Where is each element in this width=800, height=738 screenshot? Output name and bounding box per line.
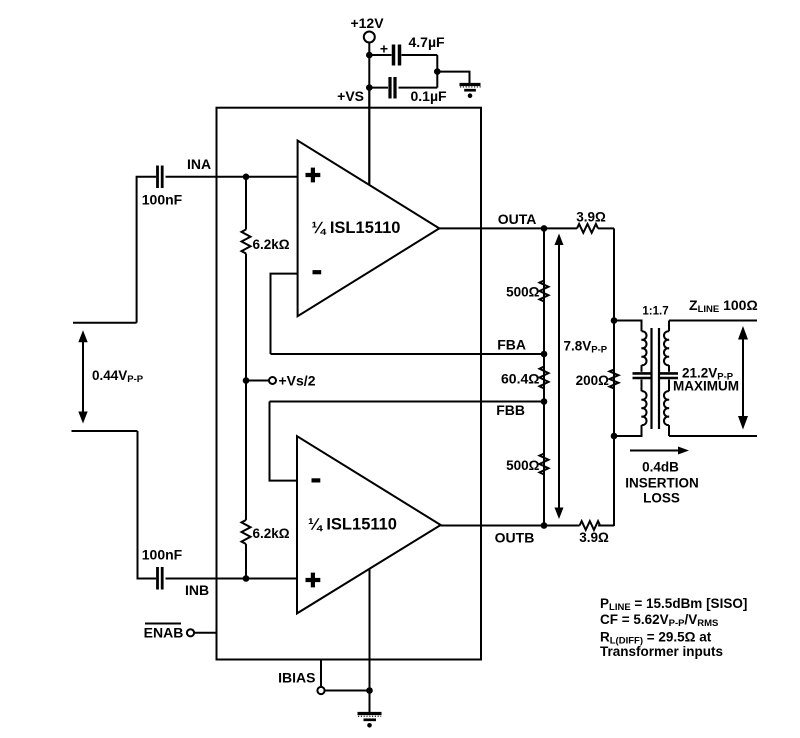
junction transformer bottom xyxy=(611,433,618,440)
stub source bottom xyxy=(72,430,138,432)
wire line-side rail xyxy=(613,228,615,526)
resistor R7 3.9 (OUTB) xyxy=(579,521,609,545)
wire INB to op-amp xyxy=(166,578,298,580)
svg-text:IBIAS: IBIAS xyxy=(278,670,315,686)
junction OUTA rail xyxy=(541,225,548,232)
capacitor C3 100nF (INA) xyxy=(142,166,183,208)
op-amp U1B xyxy=(297,436,441,613)
measure 7.8Vp-p double arrow xyxy=(555,234,608,520)
wire bias rail middle xyxy=(245,254,247,521)
svg-text:PLINE = 15.5dBm [SISO]: PLINE = 15.5dBm [SISO] xyxy=(600,596,747,613)
svg-text:¼ ISL15110: ¼ ISL15110 xyxy=(308,516,397,534)
wire FBB xyxy=(270,401,545,403)
svg-text:MAXIMUM: MAXIMUM xyxy=(673,379,739,394)
wire INA to op-amp xyxy=(166,176,298,178)
svg-text:INB: INB xyxy=(185,582,209,598)
svg-text:+12V: +12V xyxy=(350,15,384,31)
wire right vertical between caps xyxy=(436,55,438,88)
resistor R2 6.2k xyxy=(242,520,290,544)
junction at 4.7uF tap xyxy=(366,52,373,59)
wire feedback A (minus input to FBA) xyxy=(271,274,298,354)
wire IBIAS from op-amp B to ground xyxy=(369,569,371,691)
stub source top xyxy=(73,322,137,324)
terminal +12V xyxy=(350,15,384,43)
transformer T1 core xyxy=(652,328,660,429)
wire INB input with corner xyxy=(138,431,157,579)
transformer T1 secondary xyxy=(660,321,678,437)
wire line bottom xyxy=(669,435,757,437)
capacitor C4 100nF (INB) xyxy=(142,547,183,590)
wire INA input with corner xyxy=(137,177,156,323)
resistor R8 200 xyxy=(576,370,619,389)
wire OUTB to line rail xyxy=(598,525,614,527)
svg-text:FBB: FBB xyxy=(496,402,525,418)
resistor R1 6.2k xyxy=(242,230,290,254)
annotation text block xyxy=(600,596,747,659)
svg-text:Transformer inputs: Transformer inputs xyxy=(600,644,723,659)
wire bias rail lower xyxy=(245,544,247,579)
op-amp U1A xyxy=(298,141,440,317)
wire feedback B (minus input to FBB) xyxy=(270,402,298,481)
svg-text:500Ω: 500Ω xyxy=(506,458,540,473)
wire to ground xyxy=(437,72,469,83)
junction INB rail xyxy=(243,575,250,582)
svg-text:+: + xyxy=(380,41,388,57)
wire +VS to op-amp A xyxy=(368,88,370,186)
wire output rail xyxy=(543,228,545,526)
ground (bottom) xyxy=(358,691,382,728)
wire OUTA to line rail xyxy=(598,227,614,229)
measure 21.2Vp-p double arrow xyxy=(673,326,748,430)
wire OUTA xyxy=(439,227,577,229)
svg-text:+VS: +VS xyxy=(337,88,364,104)
resistor R5 60.4 xyxy=(501,367,548,389)
svg-text:7.8VP-P: 7.8VP-P xyxy=(564,339,608,356)
resistor R3 3.9 (OUTA) xyxy=(576,210,606,233)
junction FBB rail xyxy=(541,398,548,405)
svg-text:6.2kΩ: 6.2kΩ xyxy=(253,526,290,541)
source 0.44Vp-p double arrow xyxy=(78,330,143,423)
wire FBA xyxy=(271,353,545,355)
resistor R6 500 xyxy=(506,454,548,475)
junction INA rail xyxy=(243,174,250,181)
svg-text:200Ω: 200Ω xyxy=(576,373,610,388)
junction at ground tap xyxy=(434,68,441,75)
svg-text:3.9Ω: 3.9Ω xyxy=(579,530,609,545)
junction +Vs/2 xyxy=(243,377,250,384)
resistor R4 500 xyxy=(506,281,548,302)
svg-text:4.7µF: 4.7µF xyxy=(409,34,446,50)
wire bias rail upper xyxy=(245,177,247,230)
svg-text:0.1µF: 0.1µF xyxy=(411,88,448,104)
svg-text:0.4dB: 0.4dB xyxy=(642,460,679,475)
svg-text:100nF: 100nF xyxy=(142,547,183,563)
capacitor C1 4.7uF xyxy=(369,34,445,66)
junction FBA rail xyxy=(541,351,548,358)
IC boundary box xyxy=(217,108,482,660)
svg-text:60.4Ω: 60.4Ω xyxy=(501,371,539,387)
terminal +Vs/2 xyxy=(246,373,316,389)
wire OUTB xyxy=(441,525,580,527)
svg-text:FBA: FBA xyxy=(497,337,526,353)
terminal ENAB xyxy=(144,624,217,641)
svg-text:OUTB: OUTB xyxy=(495,530,535,546)
svg-text:1:1.7: 1:1.7 xyxy=(642,306,668,318)
junction OUTB rail xyxy=(541,522,548,529)
insertion loss arrow xyxy=(625,447,699,506)
svg-text:ZLINE 100Ω: ZLINE 100Ω xyxy=(689,297,758,315)
svg-text:OUTA: OUTA xyxy=(498,211,537,227)
transformer T1 primary xyxy=(614,321,651,437)
ground (top) xyxy=(460,85,481,98)
svg-text:¼ ISL15110: ¼ ISL15110 xyxy=(312,219,401,237)
svg-text:ENAB: ENAB xyxy=(144,625,184,641)
svg-text:0.44VP-P: 0.44VP-P xyxy=(92,368,144,385)
capacitor C2 0.1uF xyxy=(369,77,447,104)
junction IBIAS ground xyxy=(366,687,373,694)
wire +12V supply vertical xyxy=(368,43,370,186)
svg-text:+Vs/2: +Vs/2 xyxy=(279,373,316,389)
svg-text:LOSS: LOSS xyxy=(643,490,680,505)
svg-text:CF = 5.62VP-P/VRMS: CF = 5.62VP-P/VRMS xyxy=(600,612,718,629)
junction at 0.1uF tap xyxy=(366,84,373,91)
svg-text:100nF: 100nF xyxy=(142,192,183,208)
svg-text:INSERTION: INSERTION xyxy=(625,476,699,491)
svg-text:INA: INA xyxy=(187,156,211,172)
svg-text:6.2kΩ: 6.2kΩ xyxy=(253,237,290,252)
wire line top xyxy=(669,320,757,322)
junction transformer top xyxy=(611,317,618,324)
svg-text:3.9Ω: 3.9Ω xyxy=(576,210,606,225)
terminal IBIAS xyxy=(278,660,369,695)
svg-text:500Ω: 500Ω xyxy=(506,285,540,300)
